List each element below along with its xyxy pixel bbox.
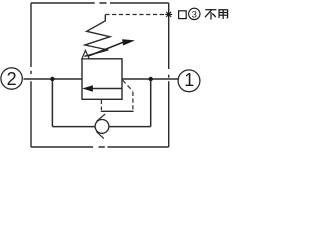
svg-text:2: 2 [7,69,17,89]
svg-text:1: 1 [184,70,194,90]
svg-text:3: 3 [192,9,197,20]
